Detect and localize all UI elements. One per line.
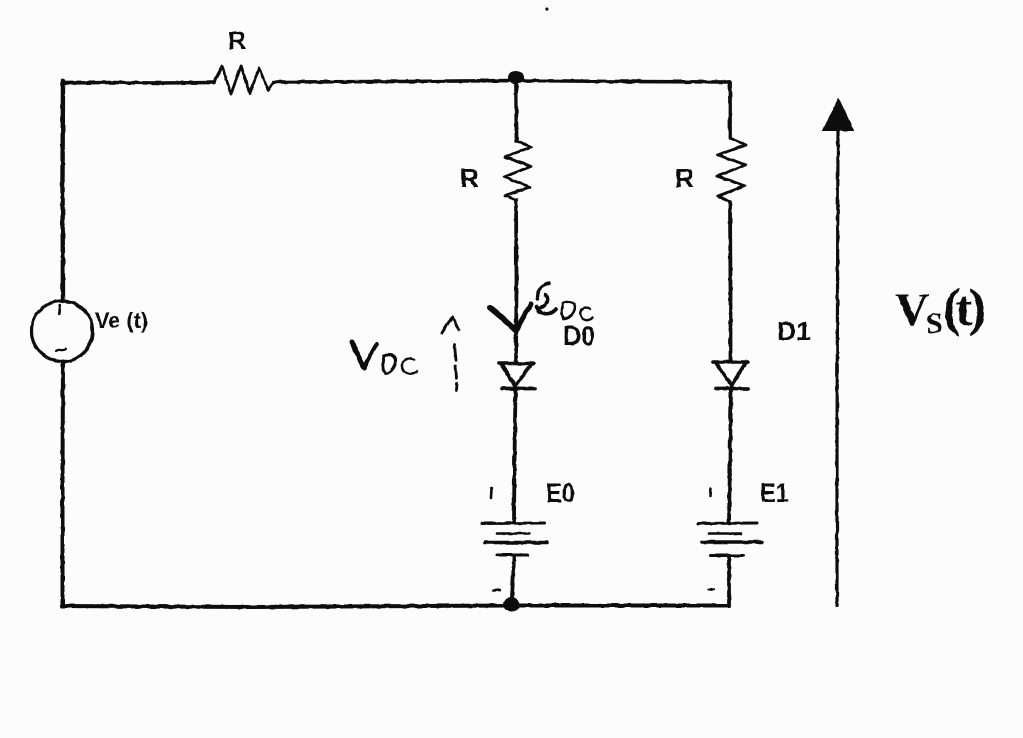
plus mark (above E0) — [490, 488, 493, 498]
current arrowhead iDC (hand-drawn, on middle wire) — [490, 308, 516, 331]
wire: right branch upper (top corner down to resistor) — [728, 82, 732, 138]
handwritten label VDC — [352, 342, 365, 368]
battery E0 — [482, 522, 544, 526]
diode D1 — [713, 362, 748, 386]
handwritten label iDC — [537, 283, 549, 299]
plus mark (above E1) — [709, 489, 712, 496]
source tilde mark (bottom, inside circle) — [56, 349, 66, 351]
wire: right branch (resistor to diode) — [728, 202, 732, 362]
wire: bottom horizontal — [63, 606, 730, 608]
svg-text:V: V — [895, 284, 929, 336]
svg-text:D0: D0 — [563, 320, 595, 351]
battery E1 — [698, 522, 757, 526]
resistor R2 (middle) — [504, 141, 531, 200]
wire: left vertical upper (top corner to source) — [60, 81, 65, 301]
wire: left vertical lower (source to bottom corner) — [61, 362, 66, 607]
svg-text:R: R — [675, 163, 694, 193]
resistor R1 (top) — [214, 66, 274, 94]
wire: top horizontal left segment — [63, 81, 214, 85]
annotation arrow VDC (dashed up arrow) — [442, 318, 453, 334]
source polarity tick (top, inside circle) — [59, 305, 60, 314]
svg-text:): ) — [969, 279, 987, 337]
node: top junction dot — [508, 71, 524, 84]
label VS(t) — [895, 279, 986, 340]
resistor R3 (right) — [717, 138, 746, 202]
svg-text:E0: E0 — [546, 478, 575, 508]
svg-text:R: R — [460, 163, 479, 193]
source Ve(t) circle — [32, 301, 93, 362]
minus mark (below E1) — [709, 588, 714, 591]
wire: middle branch upper (junction to resistor) — [514, 79, 518, 142]
svg-text:Ve (t): Ve (t) — [95, 308, 148, 333]
wire: top horizontal right segment — [274, 81, 730, 83]
svg-text:S: S — [926, 307, 943, 340]
minus mark (below E0) — [493, 589, 500, 592]
svg-text:E1: E1 — [760, 478, 789, 508]
scan speck (top) — [545, 7, 548, 10]
node: bottom junction dot — [503, 598, 520, 612]
wire: middle branch (diode to battery) — [514, 385, 516, 523]
wire: middle branch (battery to bottom junction) — [512, 557, 515, 605]
svg-text:D1: D1 — [777, 316, 811, 346]
svg-text:R: R — [228, 27, 246, 55]
wire: middle branch (resistor to diode) — [514, 200, 518, 363]
wire: right branch (diode to battery) — [729, 386, 732, 523]
diode D0 — [499, 364, 534, 387]
arrow VS(t) (tall, right side) — [837, 130, 838, 605]
wire: right branch (battery to bottom corner) — [727, 557, 731, 606]
